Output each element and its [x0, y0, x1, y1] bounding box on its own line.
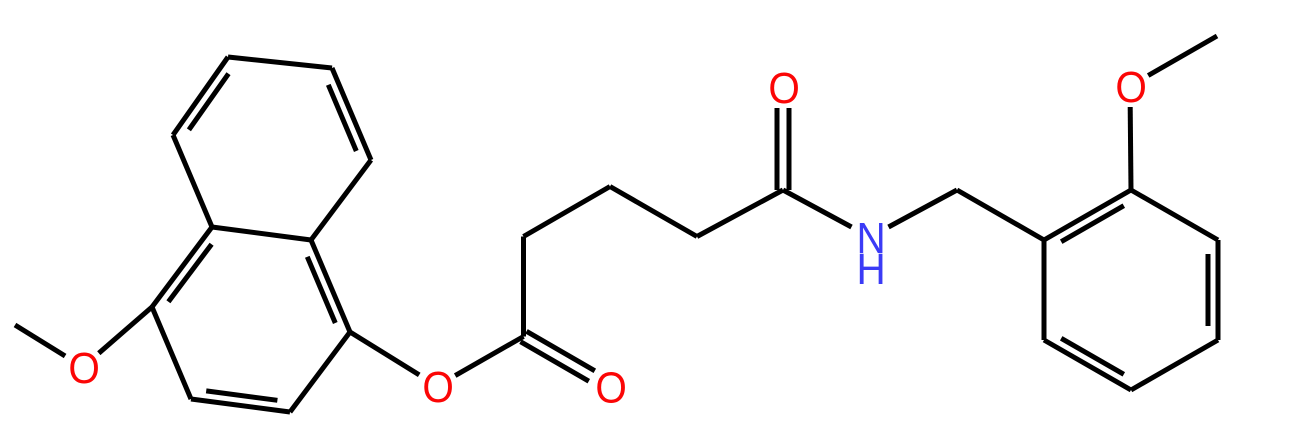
aromatic bond C4'-C5': [1131, 340, 1218, 390]
svg-text:O: O: [68, 344, 99, 393]
svg-text:O: O: [768, 64, 799, 113]
bond O1-C(=O): [455, 337, 523, 376]
aromatic bond C2'-C3': [1131, 190, 1218, 240]
bond CH2-C(=O) (chain to amide): [697, 190, 783, 237]
aromatic bond C4-C4a (double): [152, 227, 212, 307]
bond C(=O)-N (amide): [783, 190, 852, 227]
aromatic bond C4a-C5: [173, 135, 212, 227]
aromatic bond C8a-C1 (double): [307, 240, 350, 332]
bond O-CH3 (left methyl): [15, 325, 65, 356]
aromatic bond C1'-C2' (double): [1044, 190, 1131, 242]
bond CH2-CH2 (chain): [610, 187, 697, 237]
aromatic bond C1-C2: [290, 332, 350, 412]
aromatic bond C2-C3 (double): [191, 391, 290, 412]
svg-text:O: O: [1115, 63, 1146, 112]
double bond C=O (ester carbonyl): [521, 331, 595, 381]
aromatic bond C3-C4: [152, 307, 191, 399]
svg-text:O: O: [595, 363, 626, 412]
bond C2'-O (methoxy): [1128, 107, 1134, 190]
bond CH2-CH2 (chain): [524, 187, 611, 237]
svg-text:O: O: [422, 363, 453, 412]
bond N-CH2 (benzylic): [889, 190, 958, 227]
aromatic bond C4a-C8a (ring fusion): [212, 227, 311, 240]
aromatic bond C8-C8a: [311, 160, 371, 240]
svg-text:H: H: [856, 245, 885, 294]
aromatic bond C3'-C4' (double): [1208, 240, 1218, 340]
aromatic bond C5'-C6' (double): [1044, 338, 1131, 390]
aromatic bond C5-C6 (double): [173, 57, 229, 135]
aromatic bond C6'-C1': [1042, 240, 1047, 340]
aromatic bond C6-C7: [228, 57, 332, 68]
bond C(=O)-CH2: [521, 237, 526, 337]
bond C1-O1 (aryl ester): [350, 332, 419, 375]
bond O-CH3 (right methyl): [1148, 36, 1217, 76]
bond C4-O (methoxy): [99, 307, 152, 353]
double bond C=O (amide carbonyl): [777, 108, 789, 190]
aromatic bond C7-C8 (double): [328, 68, 371, 160]
bond CH2-C1' (to benzyl ring): [957, 190, 1044, 240]
